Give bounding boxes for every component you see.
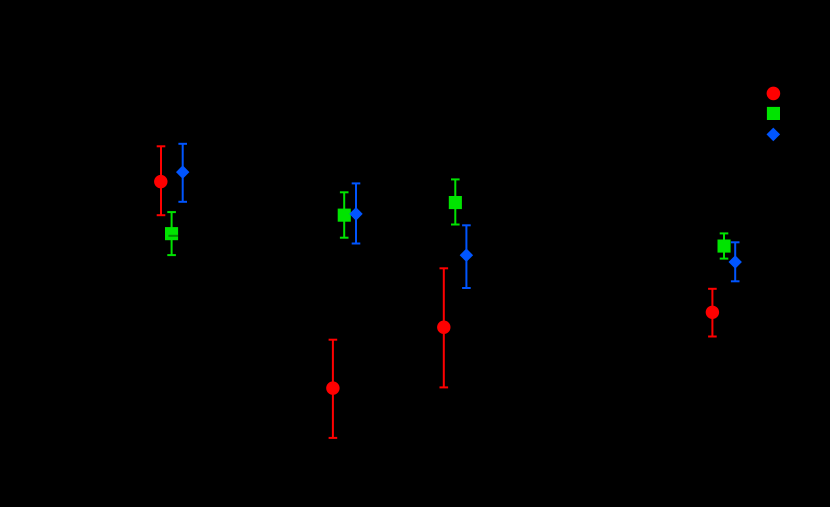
green series errorbar point 2	[340, 192, 349, 237]
dark stripe over green marker 1	[168, 235, 178, 237]
blue marker point 1	[176, 165, 189, 179]
legend marker green square	[767, 107, 780, 120]
blue series errorbar point 4	[731, 242, 740, 281]
blue marker point 4	[729, 255, 742, 269]
red series errorbar point 2	[329, 340, 338, 438]
blue series errorbar point 3	[462, 225, 471, 288]
blue marker point 2	[349, 207, 362, 221]
green marker point 2	[338, 209, 351, 222]
red marker point 4	[706, 306, 719, 319]
green series errorbar point 1	[167, 212, 176, 255]
red series errorbar point 1	[157, 146, 166, 215]
blue series errorbar point 2	[352, 183, 361, 243]
green marker point 1	[165, 227, 178, 240]
red series errorbar point 4	[708, 289, 717, 337]
green series errorbar point 4	[720, 233, 729, 258]
red marker point 1	[154, 175, 167, 188]
green marker point 3	[449, 196, 462, 209]
red series errorbar point 3	[440, 268, 449, 387]
red marker point 3	[437, 321, 450, 334]
green series errorbar point 3	[451, 179, 460, 224]
blue marker point 3	[460, 248, 473, 262]
red marker point 2	[326, 381, 339, 394]
legend marker red circle	[767, 87, 781, 101]
blue series errorbar point 1	[178, 144, 187, 202]
green marker point 4	[718, 240, 731, 253]
legend marker blue diamond	[767, 128, 781, 142]
